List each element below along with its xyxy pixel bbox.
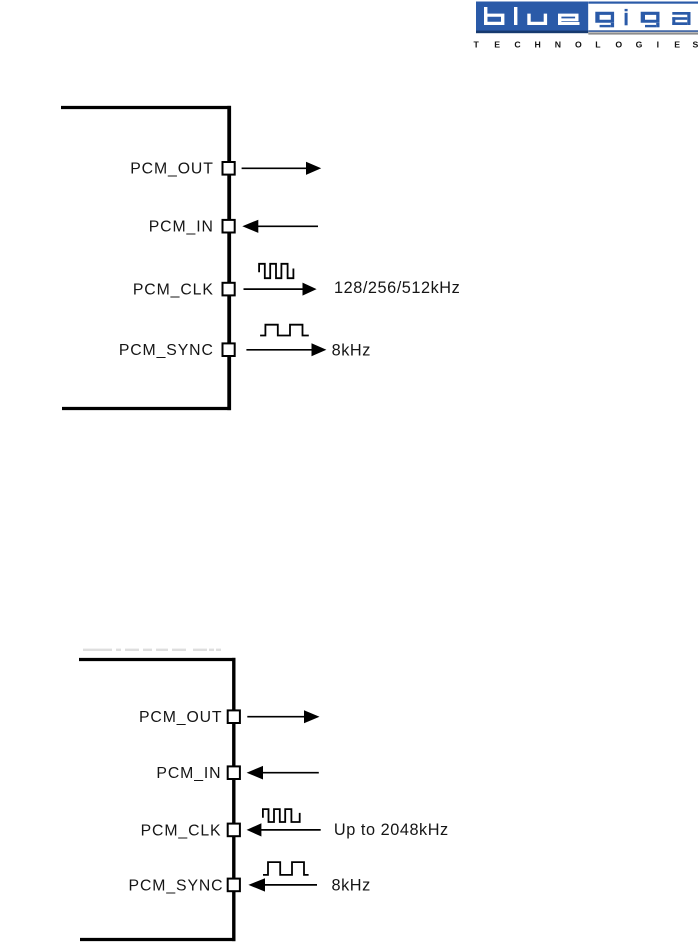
wire: PCM_OUT output arrow (diagram 2): [247, 710, 319, 723]
svg-text:O: O: [615, 40, 622, 50]
svg-text:S: S: [693, 40, 698, 50]
pin square PCM_OUT (diagram 1): [223, 162, 235, 175]
wire: chip 1 right edge: [227, 106, 231, 410]
svg-text:H: H: [535, 40, 541, 50]
clock waveform symbol (PCM_CLK, diagram 1): [259, 264, 293, 278]
sync waveform symbol (PCM_SYNC, diagram 1): [260, 325, 309, 336]
clock waveform symbol (PCM_CLK, diagram 2): [263, 809, 300, 822]
wire: PCM_CLK input arrow (diagram 2): [247, 823, 321, 836]
faint cropped heading above chip 2: [83, 649, 221, 651]
svg-text:I: I: [657, 40, 659, 50]
logo wordmark "blue": [484, 7, 580, 25]
svg-text:128/256/512kHz: 128/256/512kHz: [334, 279, 460, 297]
svg-text:C: C: [514, 40, 521, 50]
svg-text:PCM_OUT: PCM_OUT: [130, 161, 214, 178]
svg-text:E: E: [494, 40, 500, 50]
wire: PCM_CLK output arrow (diagram 1): [244, 283, 317, 296]
svg-text:PCM_CLK: PCM_CLK: [141, 822, 222, 839]
wire: chip 2 top edge: [79, 658, 235, 661]
wire: chip 2 right edge: [232, 658, 235, 941]
svg-text:L: L: [595, 40, 601, 50]
wire: PCM_OUT output arrow (diagram 1): [242, 162, 322, 175]
pin square PCM_IN (diagram 1): [223, 220, 235, 233]
svg-text:O: O: [575, 40, 582, 50]
svg-text:PCM_IN: PCM_IN: [156, 765, 221, 782]
svg-text:N: N: [555, 40, 561, 50]
svg-text:PCM_SYNC: PCM_SYNC: [119, 342, 214, 359]
logo wordmark "giga": [595, 9, 690, 27]
logo tagline TECHNOLOGIES: [474, 40, 698, 50]
logo blue box: [476, 2, 588, 34]
svg-text:T: T: [474, 40, 480, 50]
wire: chip 2 bottom edge: [80, 938, 235, 941]
wire: PCM_SYNC output arrow (diagram 1): [246, 343, 326, 356]
sync waveform symbol (PCM_SYNC, diagram 2): [263, 862, 309, 875]
svg-text:PCM_OUT: PCM_OUT: [139, 709, 223, 726]
wire: chip 1 top edge: [61, 106, 231, 109]
pin square PCM_CLK (diagram 2): [228, 824, 240, 837]
pin square PCM_SYNC (diagram 1): [223, 343, 235, 356]
pin square PCM_SYNC (diagram 2): [228, 879, 240, 892]
wire: PCM_IN input arrow (diagram 1): [242, 220, 318, 233]
pin square PCM_OUT (diagram 2): [228, 710, 240, 723]
svg-text:E: E: [674, 40, 680, 50]
svg-text:PCM_CLK: PCM_CLK: [133, 281, 214, 298]
svg-text:PCM_SYNC: PCM_SYNC: [129, 877, 224, 894]
wire: PCM_SYNC input arrow (diagram 2): [248, 878, 317, 891]
pin square PCM_CLK (diagram 1): [223, 283, 235, 296]
svg-text:Up to 2048kHz: Up to 2048kHz: [334, 821, 449, 839]
pin square PCM_IN (diagram 2): [228, 766, 240, 779]
logo giga white box: [588, 2, 698, 35]
wire: chip 1 bottom edge: [62, 407, 231, 410]
wire: PCM_IN input arrow (diagram 2): [247, 766, 319, 780]
svg-text:8kHz: 8kHz: [332, 877, 371, 895]
svg-text:PCM_IN: PCM_IN: [149, 219, 214, 236]
svg-text:G: G: [636, 40, 643, 50]
svg-text:8kHz: 8kHz: [332, 342, 371, 360]
